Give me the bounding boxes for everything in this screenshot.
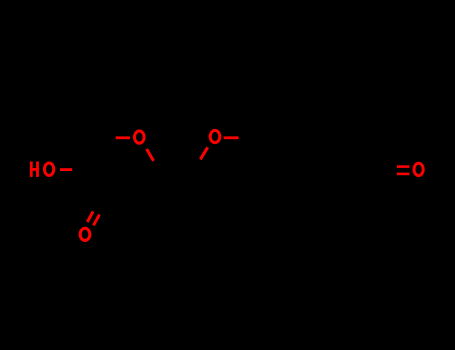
hydroxyl label HO : letter O (44, 163, 53, 176)
bond HO-C3 (red half) (60, 168, 72, 171)
ether oxygen O (phenoxy) (210, 130, 220, 142)
bond O1-C6 (red half, diagonal) (147, 149, 154, 161)
aldehyde C=O double bond red half, top line (397, 165, 410, 168)
aldehyde oxygen O (414, 163, 423, 175)
double bond C4=O red half, outer line (94, 215, 100, 226)
wire C6-CH2 (161, 171, 193, 173)
bond O-CH2 red half, diagonal (200, 147, 207, 159)
bond O1-C2 (red half, horizontal) (116, 136, 130, 139)
wire C3-C4 (95, 170, 100, 199)
aldehyde C=O double bond red half, bottom line (397, 173, 410, 176)
wire ring-CH=CH-CHO (invisible) (313, 154, 345, 170)
wire C2-C3 (95, 138, 109, 170)
hydroxyl label HO : letter H (30, 162, 39, 177)
double bond C4=O red half, inner line (87, 211, 93, 222)
carbonyl oxygen of pyranone C4=O (80, 228, 90, 240)
wire C4-C5 (100, 199, 131, 205)
ring oxygen O1 (135, 131, 145, 143)
wire C5-C6 (131, 173, 161, 205)
black (invisible) carbon skeleton bonds of pyranone ring (95, 120, 383, 205)
bond O-C(aryl) red half, horizontal (224, 136, 239, 139)
benzene ring (invisible) (253, 120, 313, 188)
